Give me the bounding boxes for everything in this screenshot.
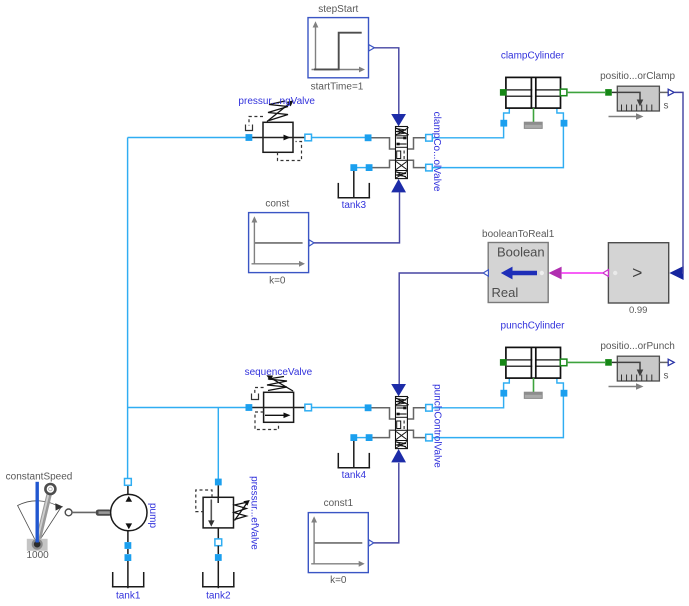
svg-text:s: s (664, 101, 669, 112)
cylinder punchCylinder body (506, 347, 561, 378)
block const (249, 213, 309, 273)
wire green punchCylinder to positionSensorPunch (567, 361, 605, 363)
arrow punchControlValve open input (top) (391, 384, 406, 396)
block booleanToReal1 (488, 243, 548, 303)
wire const1.y to punchControlValve close signal (374, 463, 399, 543)
svg-text:Boolean: Boolean (497, 245, 545, 260)
wire black pump bottom pipe (127, 531, 129, 542)
node cyan square pressureReliefValve2 top (215, 479, 222, 486)
node cyan square tank3 port (350, 164, 357, 171)
node cyan square clampControlValve port A (365, 134, 372, 141)
svg-text:s: s (664, 371, 669, 382)
node cyan square pump suction 1 (125, 542, 132, 549)
output connector booleanToReal1.y (483, 270, 488, 276)
svg-text:clampCylinder: clampCylinder (501, 51, 565, 62)
flange punchCylinder support (524, 378, 542, 398)
arrow positionSensorPunch direction (609, 383, 644, 389)
node cyan open square pump inlet (125, 479, 132, 486)
wire cyan tank3 link (357, 167, 367, 169)
svg-text:const: const (265, 199, 289, 210)
wire const.y to clampControlValve close signal (314, 192, 400, 243)
svg-text:positio...orPunch: positio...orPunch (600, 341, 675, 352)
wire stepStart.y to clampControlValve open signal (374, 48, 398, 114)
wire cyan punchControlValve to punchCylinder left chamber (432, 378, 510, 408)
node cyan open square punchControlValve right top (426, 405, 433, 412)
cylinder clampCylinder body (506, 77, 561, 108)
svg-text:>: > (632, 263, 642, 283)
output connector const1.y (369, 540, 374, 546)
wire black pump to tank1 (127, 561, 129, 588)
node cyan square sequenceValve port_a (246, 404, 253, 411)
arrow clampControlValve open input (top) (391, 114, 406, 126)
source constantSpeed (18, 482, 64, 551)
svg-text:tank3: tank3 (342, 200, 367, 211)
valve punchControlValve icon (396, 397, 409, 449)
node cyan square clampCylinder port_b (561, 120, 568, 127)
valve clampControlValve icon (396, 127, 409, 179)
wire gray punchControlValve left bottom port (tank4) (373, 430, 396, 437)
svg-text:Real: Real (492, 285, 519, 300)
wire main cyan supply vertical from relief line down to pump (127, 138, 129, 479)
arrow positionSensorClamp direction (609, 113, 644, 119)
wire greater.y to booleanToReal1.u (magenta) (562, 272, 603, 274)
svg-text:booleanToReal1: booleanToReal1 (482, 229, 555, 240)
svg-text:0.99: 0.99 (629, 305, 648, 316)
svg-text:stepStart: stepStart (318, 4, 358, 15)
svg-text:k=0: k=0 (330, 575, 347, 586)
wire gray clampControlValve left bottom port (tank3) (373, 160, 396, 167)
wire black to tank2 (217, 561, 219, 588)
input connector greater.u1 (669, 266, 683, 280)
tank tank3 (338, 183, 371, 198)
node cyan square tank4 port (350, 434, 357, 441)
wire gray positionSensorClamp output stub (659, 91, 668, 93)
svg-text:tank2: tank2 (206, 591, 231, 602)
node cyan square punchCylinder port_b (561, 390, 568, 397)
wire cyan punchControlValve to punchCylinder right chamber (432, 378, 564, 438)
node cyan open square punchControlValve right bottom (426, 434, 433, 441)
output connector positionSensorClamp.s (668, 89, 674, 95)
svg-text:punchCylinder: punchCylinder (501, 321, 566, 332)
output connector stepStart.y (369, 45, 375, 51)
tank tank2 (202, 572, 235, 587)
wire cyan supply to sequenceValve (128, 407, 246, 409)
output connector const.y (309, 240, 314, 246)
flange clampCylinder support (524, 108, 542, 128)
wire cyan clampControlValve to clampCylinder right chamber (432, 108, 564, 168)
svg-text:constantSpeed: constantSpeed (6, 472, 73, 483)
node green square positionSensorPunch flange (605, 359, 612, 366)
shaft pump flange (96, 510, 112, 516)
valve pressureReliefValve2 (196, 490, 250, 528)
wire black tank3 down pipe (353, 170, 355, 199)
input connector booleanToReal1.u (549, 267, 562, 280)
node cyan open square sequenceValve port_b (305, 404, 312, 411)
node cyan square tank2 port (215, 554, 222, 561)
svg-text:sequenceValve: sequenceValve (245, 367, 313, 378)
wire black pressureReliefValve2 bottom pipe (217, 528, 219, 539)
wire black pump top pipe (127, 485, 129, 494)
valve pressureReliefValve (246, 100, 305, 160)
svg-text:startTime=1: startTime=1 (311, 82, 364, 93)
wire green clampCylinder to positionSensorClamp (567, 91, 605, 93)
wire black tank4 down pipe (353, 440, 355, 469)
wire cyan sequenceValve to punchControlValve (309, 407, 366, 409)
wire cyan supply to pressureReliefValve (128, 137, 246, 139)
wire cyan pressureReliefValve to clampControlValve (309, 137, 366, 139)
node cyan square pressureReliefValve port_a (246, 134, 253, 141)
node cyan square tank4 link (366, 434, 373, 441)
arrow clampControlValve close input (bottom) (391, 179, 406, 192)
node green square punchCylinder flange_a (500, 359, 507, 366)
svg-text:punchControlValve: punchControlValve (432, 384, 443, 468)
pump circle (111, 494, 147, 530)
node cyan open square pressureReliefValve2 out (215, 539, 222, 546)
wire gray clampControlValve right top port (407, 138, 425, 149)
block greater (608, 243, 668, 303)
wire shaft constantSpeed to pump (72, 511, 96, 513)
node cyan square tank3 link (366, 164, 373, 171)
node cyan square pump suction 2 (125, 554, 132, 561)
sensor positionSensorPunch (617, 356, 659, 381)
wire short positionSensorPunch input stub (612, 361, 618, 363)
node green open square clampCylinder flange_b (560, 89, 567, 96)
wire black between pump squares (127, 549, 129, 554)
wire gray punchControlValve left top port (372, 408, 396, 419)
node green square clampCylinder flange_a (500, 89, 507, 96)
svg-text:tank4: tank4 (342, 470, 367, 481)
sensor positionSensorClamp (617, 86, 659, 111)
wire gray punchControlValve right bottom port (407, 430, 425, 437)
svg-text:const1: const1 (324, 498, 354, 509)
wire positionSensorClamp.s to greater.u1 (675, 92, 683, 273)
wire cyan tank4 link (357, 437, 367, 439)
node green square positionSensorClamp flange (605, 89, 612, 96)
wire black pressureReliefValve2 top stub (217, 485, 219, 497)
wire gray clampControlValve left top port (372, 138, 396, 149)
output connector greater.y (603, 270, 609, 277)
tank tank1 (112, 572, 145, 587)
node cyan open square clampControlValve right top (426, 135, 433, 142)
svg-text:pressur...efValve: pressur...efValve (249, 476, 260, 550)
node cyan square clampCylinder port_a (500, 120, 507, 127)
svg-text:positio...orClamp: positio...orClamp (600, 71, 675, 82)
svg-text:pump: pump (147, 503, 158, 528)
tank tank4 (338, 453, 371, 468)
wire gray clampControlValve right bottom port (407, 160, 425, 167)
block const1 (308, 513, 368, 573)
wire cyan clampControlValve to clampCylinder left chamber (432, 108, 510, 138)
block stepStart (308, 18, 369, 78)
svg-text:clampCo...olValve: clampCo...olValve (431, 112, 442, 192)
node cyan open square clampControlValve right bottom (426, 164, 433, 171)
valve sequenceValve (252, 375, 305, 429)
node cyan open square pressureReliefValve port_b (305, 134, 312, 141)
output connector positionSensorPunch.s (668, 359, 674, 365)
node cyan square punchCylinder port_a (500, 390, 507, 397)
wire cyan branch down to pressureReliefValve2 near tank2 (217, 408, 219, 481)
arrow punchControlValve close input (bottom) (391, 449, 406, 462)
wire gray punchControlValve right top port (407, 408, 425, 419)
wire gray positionSensorPunch output stub (659, 361, 668, 363)
wire short positionSensorClamp input stub (612, 91, 618, 93)
svg-text:pressur...ngValve: pressur...ngValve (238, 96, 315, 107)
svg-text:k=0: k=0 (269, 276, 286, 287)
wire black between tank2 squares (217, 546, 219, 555)
node green open square punchCylinder flange_b (560, 359, 567, 366)
svg-text:tank1: tank1 (116, 591, 141, 602)
svg-text:1000: 1000 (26, 550, 49, 561)
node cyan square punchControlValve port A (365, 404, 372, 411)
flange connector constantSpeed.flange (65, 509, 72, 516)
wire booleanToReal1.y to punchControlValve open signal (399, 273, 483, 384)
